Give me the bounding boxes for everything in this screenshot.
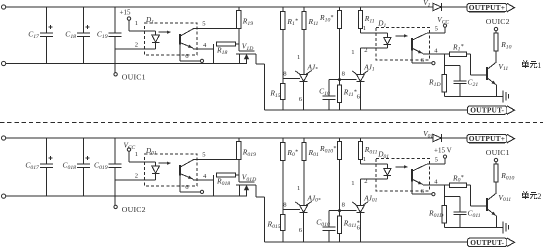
svg-text:R1*: R1* — [452, 42, 463, 52]
svg-text:6: 6 — [185, 184, 189, 191]
svg-text:R15: R15 — [269, 89, 280, 99]
svg-text:1: 1 — [297, 54, 300, 61]
svg-text:D1: D1 — [377, 20, 386, 29]
svg-text:AJ*: AJ* — [307, 63, 319, 72]
svg-text:AJ1: AJ1 — [363, 63, 375, 72]
svg-text:1: 1 — [351, 49, 354, 56]
svg-text:6: 6 — [185, 53, 189, 60]
svg-text:4: 4 — [434, 178, 438, 185]
svg-text:1: 1 — [363, 156, 366, 163]
svg-text:OUIC2: OUIC2 — [486, 17, 510, 26]
svg-text:8: 8 — [342, 201, 346, 208]
svg-text:+15: +15 — [120, 9, 131, 17]
svg-text:D1: D1 — [145, 16, 154, 25]
svg-text:+15 V: +15 V — [434, 146, 452, 154]
svg-text:C21: C21 — [468, 77, 479, 87]
svg-text:R01: R01 — [308, 148, 319, 158]
svg-text:1: 1 — [135, 20, 138, 27]
svg-text:R010*: R010* — [319, 144, 336, 154]
svg-text:AJ01: AJ01 — [363, 194, 377, 203]
svg-text:OUIC2: OUIC2 — [122, 205, 146, 214]
svg-text:C018: C018 — [62, 161, 76, 171]
svg-text:V01: V01 — [423, 130, 433, 139]
svg-text:4: 4 — [203, 42, 207, 49]
svg-text:R0*: R0* — [452, 173, 463, 183]
svg-text:R10: R10 — [500, 40, 511, 50]
svg-text:R19: R19 — [242, 17, 253, 27]
svg-text:2: 2 — [135, 172, 138, 179]
svg-text:R11*: R11* — [343, 88, 357, 98]
svg-text:5: 5 — [435, 25, 439, 32]
svg-text:C18: C18 — [65, 30, 76, 40]
svg-text:R11: R11 — [308, 17, 319, 27]
svg-text:C10: C10 — [319, 87, 330, 97]
svg-text:8: 8 — [283, 201, 287, 208]
svg-text:C17: C17 — [28, 30, 40, 40]
svg-text:OUIC1: OUIC1 — [486, 148, 510, 157]
svg-text:4: 4 — [434, 47, 438, 54]
svg-text:V1D: V1D — [242, 42, 254, 52]
svg-text:V11: V11 — [498, 62, 508, 72]
svg-text:OUTPUT-: OUTPUT- — [470, 106, 504, 115]
svg-text:C011: C011 — [468, 208, 481, 218]
svg-text:C19: C19 — [97, 30, 108, 40]
svg-text:R1*: R1* — [286, 17, 297, 27]
svg-text:R015: R015 — [266, 220, 280, 230]
svg-text:2: 2 — [364, 178, 367, 185]
svg-text:1: 1 — [297, 185, 300, 192]
svg-text:OUTPUT+: OUTPUT+ — [469, 3, 505, 12]
svg-text:R010: R010 — [500, 171, 514, 181]
svg-text:6: 6 — [299, 227, 303, 234]
svg-text:D01: D01 — [377, 151, 389, 160]
svg-text:R18: R18 — [216, 45, 227, 55]
svg-text:R011: R011 — [364, 145, 378, 155]
svg-text:8: 8 — [283, 70, 287, 77]
svg-text:4: 4 — [203, 173, 207, 180]
svg-text:OUTPUT+: OUTPUT+ — [469, 134, 505, 143]
svg-text:R018: R018 — [216, 176, 230, 186]
svg-text:C017: C017 — [25, 161, 40, 171]
svg-text:R1D: R1D — [428, 78, 441, 88]
svg-text:5: 5 — [435, 156, 439, 163]
svg-text:AJ0*: AJ0* — [307, 194, 321, 203]
svg-text:OUTPUT-: OUTPUT- — [470, 238, 504, 247]
svg-text:5: 5 — [202, 152, 206, 159]
svg-text:C010: C010 — [316, 218, 330, 228]
svg-text:R11: R11 — [364, 14, 375, 24]
svg-text:2: 2 — [537, 192, 541, 201]
svg-text:5: 5 — [202, 21, 206, 28]
svg-text:2: 2 — [135, 41, 138, 48]
svg-text:D01: D01 — [145, 147, 157, 156]
svg-text:1: 1 — [351, 180, 354, 187]
svg-text:R0*: R0* — [286, 148, 297, 158]
svg-text:1: 1 — [537, 61, 541, 70]
svg-text:1: 1 — [363, 25, 366, 32]
svg-text:VCC: VCC — [124, 141, 136, 150]
svg-text:V01D: V01D — [242, 173, 257, 183]
svg-text:2: 2 — [364, 47, 367, 54]
svg-text:R019: R019 — [242, 148, 256, 158]
svg-text:V011: V011 — [498, 193, 511, 203]
svg-text:R10*: R10* — [319, 13, 333, 23]
svg-text:OUIC1: OUIC1 — [122, 72, 146, 81]
svg-text:8: 8 — [342, 70, 346, 77]
svg-text:C019: C019 — [94, 161, 108, 171]
svg-text:VCC: VCC — [437, 16, 449, 25]
svg-text:6: 6 — [299, 96, 303, 103]
svg-text:1: 1 — [135, 151, 138, 158]
